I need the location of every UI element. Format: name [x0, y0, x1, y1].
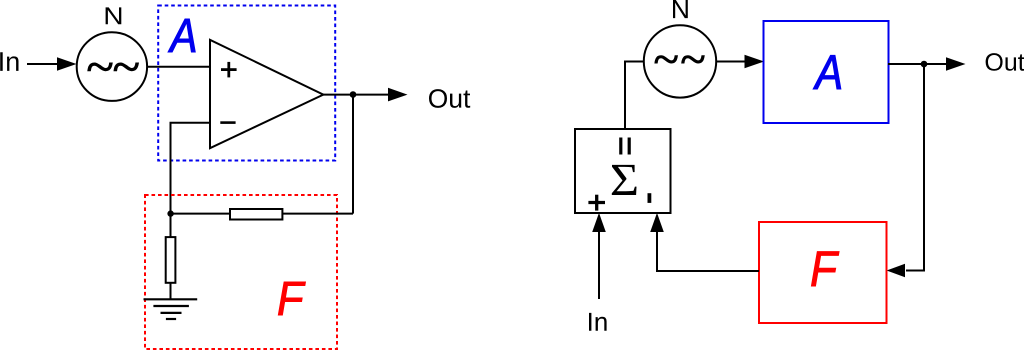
noise source N (circle)	[644, 25, 716, 97]
summer block (sigma)	[575, 129, 671, 213]
sigma symbol	[612, 165, 637, 195]
noise source waveform (double tilde)	[87, 63, 139, 72]
node In (label)	[0, 52, 18, 71]
node N (label)	[673, 0, 688, 18]
summer output sign marks (||)	[621, 138, 629, 155]
junction dot at op-amp output	[350, 91, 357, 98]
node N (label)	[106, 7, 122, 24]
block F (feedback)	[759, 222, 887, 323]
wire feedback node to resistor R1	[171, 213, 231, 215]
dashed box A (amplifier boundary)	[158, 6, 335, 161]
noise source N (circle)	[77, 32, 147, 101]
noise source waveform (double tilde)	[654, 55, 704, 63]
wire summer output to noise source	[625, 62, 643, 130]
wire output down to feedback network	[352, 95, 354, 214]
op-amp - pin marking	[220, 121, 235, 124]
wire feedback node to op-amp - input	[171, 123, 211, 214]
wire output down to block F with arrow	[906, 64, 924, 271]
node Out (label)	[429, 89, 470, 108]
ground	[144, 299, 198, 319]
wire resistor R1 to output line	[282, 213, 353, 215]
junction dot feedback node	[167, 210, 173, 216]
label F	[811, 252, 839, 286]
node In (label)	[589, 313, 607, 331]
node Out (label)	[986, 53, 1024, 71]
summer - input sign (rotated)	[648, 193, 652, 203]
label F	[278, 282, 305, 315]
label A	[813, 55, 841, 89]
op-amp + pin marking	[221, 62, 237, 78]
summer + input sign	[588, 195, 605, 211]
wire block F output to summer - input with arrow	[657, 231, 759, 271]
wire In to noise source with arrow	[27, 63, 60, 65]
wire block A output	[888, 63, 947, 65]
op-amp U1 (triangle)	[210, 40, 323, 148]
wire resistor R2 to ground	[170, 283, 172, 300]
wire feedback node to resistor R2	[170, 214, 172, 237]
output arrow	[946, 57, 966, 71]
dashed box F (feedback network boundary)	[145, 195, 337, 349]
wire op-amp output	[323, 94, 388, 96]
wire In to summer + input with arrow	[598, 231, 600, 299]
wire noise source to block A with arrow	[716, 61, 746, 63]
junction dot at block A output	[921, 61, 928, 68]
resistor R2 (vertical, to ground)	[166, 237, 176, 283]
block A (amplifier)	[764, 21, 889, 123]
wire noise source to op-amp + input	[147, 66, 210, 68]
output arrow	[388, 88, 408, 102]
label A	[168, 19, 195, 52]
resistor R1 (horizontal, feedback)	[230, 209, 282, 220]
